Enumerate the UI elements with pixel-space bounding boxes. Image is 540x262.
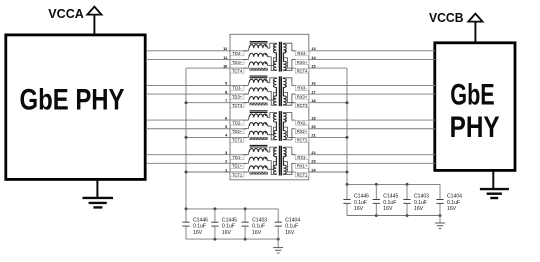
svg-text:RX1-: RX1-	[297, 155, 307, 160]
svg-text:C1445: C1445	[383, 193, 398, 199]
svg-text:20: 20	[311, 125, 315, 129]
pin numbers 6 5 4	[225, 116, 228, 137]
wire RCT3 pin 18	[309, 102, 347, 104]
wire TD1- pin 3	[146, 154, 247, 156]
svg-text:C1403: C1403	[252, 217, 267, 223]
pin numbers 3 2 1	[225, 151, 227, 172]
pin numbers 12 11 10	[223, 47, 227, 68]
wire cap bank top bus	[346, 183, 441, 186]
wire cap bank bottom bus	[347, 214, 442, 217]
pin numbers 9 8 7	[225, 82, 227, 103]
svg-text:8: 8	[225, 90, 227, 94]
wire cap bank top bus	[185, 207, 279, 210]
svg-text:RX1+: RX1+	[297, 164, 308, 169]
pin label RCT3	[295, 103, 309, 108]
svg-text:16V: 16V	[414, 206, 424, 212]
svg-text:0.1uF: 0.1uF	[252, 224, 265, 230]
wire secondary center tap channel 3	[283, 92, 295, 102]
svg-text:16V: 16V	[222, 230, 232, 236]
wire RCT1 pin 24	[309, 171, 347, 173]
pin label RX1+	[295, 164, 309, 169]
wire secondary top channel 2	[283, 113, 295, 121]
wire primary center tap channel 1	[268, 162, 276, 170]
svg-text:C1445: C1445	[222, 217, 237, 223]
wire primary bottom channel 1	[268, 161, 276, 175]
svg-text:16V: 16V	[354, 206, 364, 212]
svg-text:11: 11	[223, 56, 227, 60]
svg-text:15: 15	[311, 64, 315, 68]
pin numbers 13 14 15	[311, 47, 316, 68]
pin numbers 22 23 24	[311, 151, 316, 172]
svg-text:16V: 16V	[447, 206, 457, 212]
pin numbers 16 17 18	[311, 82, 315, 103]
svg-text:16V: 16V	[383, 206, 393, 212]
wire primary top channel 3	[268, 78, 276, 83]
pin label TD3-	[230, 86, 244, 91]
svg-text:RCT1: RCT1	[297, 172, 308, 177]
wire TD3- pin 9	[146, 84, 247, 86]
wire RX4- pin 13	[309, 50, 436, 52]
power VCCB	[429, 10, 483, 43]
IC U2 GbE PHY (right)	[435, 43, 515, 171]
pin label TD2-	[230, 120, 244, 125]
capacitor C1446 0.1uF	[182, 209, 208, 239]
node RCT bus	[346, 68, 349, 184]
wire TCT1 pin 1	[186, 171, 247, 173]
wire RX1+ pin 23	[309, 162, 436, 164]
wire primary bottom channel 4	[268, 57, 276, 71]
transformer channel 4	[273, 42, 287, 72]
ground (right PHY)	[480, 170, 509, 198]
svg-text:TD3+: TD3+	[232, 94, 243, 99]
pin numbers 19 20 21	[311, 116, 315, 137]
wire TCT2 pin 4	[186, 136, 247, 138]
wire TD3+ pin 8	[146, 93, 247, 95]
svg-text:TCT4: TCT4	[232, 68, 243, 73]
capacitor C1404 0.1uF	[436, 184, 462, 215]
wire TCT4 pin 10	[186, 67, 247, 69]
wire RX1- pin 22	[309, 154, 436, 156]
svg-text:TD4-: TD4-	[233, 51, 243, 56]
svg-text:0.1uF: 0.1uF	[354, 200, 367, 206]
svg-text:21: 21	[311, 134, 315, 138]
svg-text:10: 10	[223, 64, 227, 68]
svg-text:TD2-: TD2-	[233, 120, 243, 125]
svg-text:TD4+: TD4+	[232, 60, 243, 65]
wire primary center tap channel 4	[268, 58, 276, 66]
pin label RCT4	[295, 68, 309, 73]
wire RX3- pin 16	[309, 84, 436, 86]
common-mode choke channel 2	[244, 111, 268, 140]
wire secondary top channel 4	[283, 43, 295, 51]
svg-text:PHY: PHY	[450, 112, 500, 144]
pin label RX3-	[295, 86, 309, 91]
magnetics module T1 outline	[230, 34, 309, 180]
pin label TD1-	[230, 155, 244, 160]
wire secondary bottom channel 1	[283, 163, 295, 174]
ground (cap bank)	[273, 239, 283, 253]
wire primary center tap channel 3	[268, 92, 276, 100]
svg-text:16: 16	[311, 82, 315, 86]
svg-text:RX2-: RX2-	[297, 120, 307, 125]
wire RCT2 pin 21	[309, 136, 347, 138]
svg-text:3: 3	[225, 151, 227, 155]
transformer channel 3	[273, 76, 287, 106]
svg-text:16V: 16V	[193, 230, 203, 236]
svg-text:18: 18	[311, 99, 315, 103]
capacitor C1404 0.1uF	[275, 209, 301, 239]
svg-text:12: 12	[223, 47, 227, 51]
pin label RCT2	[295, 138, 309, 143]
svg-text:7: 7	[225, 99, 227, 103]
svg-text:RCT2: RCT2	[297, 138, 308, 143]
common-mode choke channel 1	[244, 145, 268, 174]
wire RX3+ pin 17	[309, 93, 436, 95]
svg-text:0.1uF: 0.1uF	[193, 224, 206, 230]
wire secondary top channel 1	[283, 147, 295, 155]
pin label RX1-	[295, 155, 309, 160]
svg-text:16V: 16V	[252, 230, 262, 236]
pin label TD3+	[230, 94, 244, 99]
svg-text:23: 23	[311, 160, 315, 164]
svg-text:19: 19	[311, 116, 315, 120]
svg-text:13: 13	[311, 47, 315, 51]
svg-text:RCT3: RCT3	[297, 103, 308, 108]
svg-text:9: 9	[225, 82, 227, 86]
capacitor C1403 0.1uF	[242, 209, 268, 239]
common-mode choke channel 3	[244, 76, 268, 105]
pin label TD2+	[230, 129, 244, 134]
wire primary bottom channel 3	[268, 91, 276, 105]
transformer channel 1	[273, 146, 287, 176]
wire TD2- pin 6	[146, 119, 247, 121]
wire primary center tap channel 2	[268, 127, 276, 135]
capacitor C1446 0.1uF	[343, 184, 369, 215]
wire secondary bottom channel 2	[283, 129, 295, 140]
pin label TCT1	[230, 172, 244, 177]
svg-text:0.1uF: 0.1uF	[414, 200, 427, 206]
svg-text:22: 22	[311, 151, 315, 155]
wire primary top channel 1	[268, 147, 276, 152]
wire secondary center tap channel 4	[283, 58, 295, 68]
svg-text:RX4-: RX4-	[297, 51, 307, 56]
pin label RX3+	[295, 94, 309, 99]
svg-text:GbE PHY: GbE PHY	[20, 84, 125, 117]
svg-text:RX3+: RX3+	[297, 94, 308, 99]
wire TD1+ pin 2	[146, 162, 247, 164]
wire cap bank bottom bus	[186, 238, 280, 241]
wire secondary bottom channel 4	[283, 59, 295, 70]
svg-text:TD1-: TD1-	[233, 155, 243, 160]
wire primary bottom channel 2	[268, 126, 276, 140]
svg-text:C1446: C1446	[193, 217, 208, 223]
transformer channel 2	[273, 111, 287, 141]
svg-text:16V: 16V	[285, 230, 295, 236]
pin label TD4+	[230, 60, 244, 65]
pin label TD1+	[230, 164, 244, 169]
wire primary top channel 2	[268, 113, 276, 118]
svg-text:RX3-: RX3-	[297, 86, 307, 91]
pin label RX2+	[295, 129, 309, 134]
IC U1 GbE PHY (left)	[6, 35, 145, 180]
svg-text:VCCA: VCCA	[48, 6, 84, 21]
svg-text:TD1+: TD1+	[232, 164, 243, 169]
node TCT bus	[185, 68, 188, 209]
wire TCT3 pin 7	[186, 102, 247, 104]
svg-text:2: 2	[225, 160, 227, 164]
svg-text:0.1uF: 0.1uF	[383, 200, 396, 206]
wire TD4+ pin 11	[146, 58, 247, 60]
svg-text:6: 6	[225, 116, 227, 120]
svg-text:VCCB: VCCB	[429, 10, 464, 25]
svg-text:0.1uF: 0.1uF	[285, 224, 298, 230]
svg-text:RX2+: RX2+	[297, 129, 308, 134]
capacitor C1445 0.1uF	[211, 209, 237, 239]
pin label TCT4	[230, 68, 244, 73]
ground (cap bank)	[435, 216, 445, 229]
svg-text:C1404: C1404	[285, 217, 300, 223]
capacitor C1445 0.1uF	[373, 184, 399, 215]
wire TD2+ pin 5	[146, 128, 247, 130]
svg-text:C1403: C1403	[414, 193, 429, 199]
wire secondary top channel 3	[283, 78, 295, 86]
svg-text:5: 5	[225, 125, 227, 129]
svg-text:TCT2: TCT2	[232, 138, 243, 143]
svg-text:17: 17	[311, 90, 315, 94]
wire RCT4 pin 15	[309, 67, 347, 69]
wire secondary center tap channel 1	[283, 162, 295, 172]
svg-text:TD2+: TD2+	[232, 129, 243, 134]
svg-text:1: 1	[225, 168, 227, 172]
pin label RCT1	[295, 172, 309, 177]
power VCCA	[48, 6, 101, 35]
ground (left PHY)	[83, 179, 114, 207]
svg-text:0.1uF: 0.1uF	[447, 200, 460, 206]
wire secondary center tap channel 2	[283, 127, 295, 137]
svg-text:TCT1: TCT1	[232, 172, 243, 177]
wire primary top channel 4	[268, 43, 276, 48]
wire TD4- pin 12	[146, 50, 247, 52]
pin label RX4+	[295, 60, 309, 65]
svg-text:RCT4: RCT4	[297, 68, 308, 73]
svg-text:TD3-: TD3-	[233, 86, 243, 91]
svg-text:0.1uF: 0.1uF	[222, 224, 235, 230]
wire secondary bottom channel 3	[283, 94, 295, 105]
pin label RX2-	[295, 120, 309, 125]
pin label TD4-	[230, 51, 244, 56]
capacitor C1403 0.1uF	[403, 184, 429, 215]
svg-text:GbE: GbE	[450, 80, 495, 112]
svg-text:TCT3: TCT3	[232, 103, 243, 108]
wire RX2+ pin 20	[309, 128, 436, 130]
pin label RX4-	[295, 51, 309, 56]
wire RX2- pin 19	[309, 119, 436, 121]
svg-text:C1446: C1446	[354, 193, 369, 199]
svg-text:RX4+: RX4+	[297, 60, 308, 65]
wire RX4+ pin 14	[309, 58, 436, 60]
pin label TCT2	[230, 138, 244, 143]
svg-text:C1404: C1404	[447, 193, 462, 199]
pin label TCT3	[230, 103, 244, 108]
common-mode choke channel 4	[244, 42, 268, 71]
